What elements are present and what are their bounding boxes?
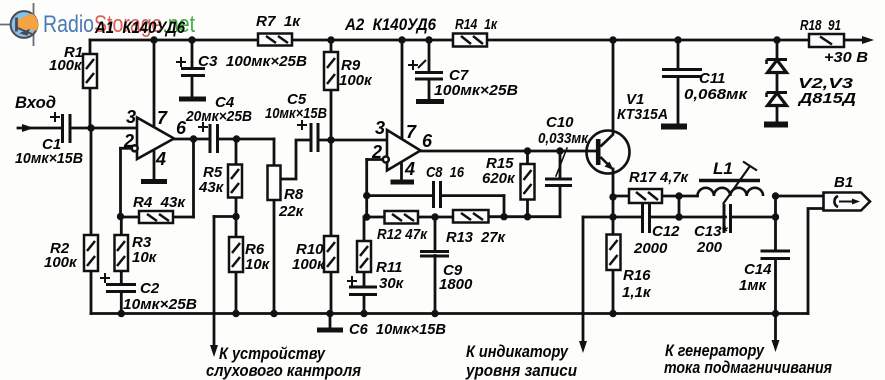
svg-text:22к: 22к [278,203,305,220]
wire R11 top [363,217,366,241]
svg-text:3: 3 [375,118,385,138]
resistor R12 [385,211,419,224]
svg-text:620к: 620к [482,170,516,187]
svg-text:1,1к: 1,1к [622,284,652,301]
resistor R13 [453,210,489,223]
capacitor C4 [210,124,218,153]
svg-text:0,068мк: 0,068мк [684,86,749,103]
wire V1 collector to rail [612,40,615,134]
resistor R3 [115,235,129,271]
wire C3 top to rail [191,40,194,69]
wire R16 bottom to rail [612,270,615,314]
wire indicator tap drop [582,217,585,345]
capacitor C3 [181,69,205,76]
ground bar bottom rail [317,328,343,333]
arrow +30V [862,36,874,44]
capacitor C7 [415,73,443,80]
resistor R4 [139,211,173,223]
logo RadioStorage.net [0,3,195,46]
node A1 output [190,135,197,142]
node L1 right [772,192,779,199]
wire C4 to R5 node [218,138,237,141]
ground bar C11 [661,124,687,130]
svg-text:1мк: 1мк [739,277,767,294]
wire C6 to rail [363,295,366,314]
svg-text:10к: 10к [245,256,271,273]
plus sign C2 [100,273,110,283]
capacitor C11 [662,70,702,77]
node rail C6 [360,310,367,317]
wire R8 bottom to rail [273,200,276,314]
svg-text:20мк×25В: 20мк×25В [185,108,252,125]
capacitor C8 [434,181,441,208]
wire R4 right lead to feedback riser [173,216,194,219]
svg-text:C12: C12 [652,223,680,240]
node R17 L1 top [675,192,682,199]
node top rail V2V3 [773,36,780,43]
wire L1 right node vertical [774,196,777,217]
node top rail A2 pin7 [398,36,405,43]
wire pin2 down to feedback lines [365,160,368,218]
wire C12 right to L1C13 node [650,216,679,219]
wire C9 bottom to rail [434,256,437,314]
svg-text:Вход: Вход [15,93,56,112]
wire upper feedback drop [503,196,506,217]
svg-text:100к: 100к [292,256,326,273]
wire zener string middle [776,73,779,94]
node emitter [609,193,616,200]
wire node down to C14 [774,217,777,251]
node pin2 A2 upper [363,192,370,199]
svg-text:100к: 100к [49,57,83,74]
svg-text:R14 1к: R14 1к [455,16,498,33]
capacitor C2 [106,285,136,292]
capacitor C5 [311,123,318,152]
wire R11 bottom to C6 [363,272,366,287]
wire B1 return [808,209,824,314]
resistor R14 [453,34,487,47]
wire top rail left segment [90,39,258,42]
inductor L1 [698,162,764,205]
wire A2 pin4 to ground [400,162,403,183]
wire lower feedback R11 to R12 [364,216,385,219]
ground A2 pin4 [391,180,415,185]
wire monitor tap down arrow line [213,217,216,351]
capacitor C6 [349,287,377,295]
svg-text:43к: 43к [198,179,225,196]
wire node down to R10 [330,140,333,236]
node top rail V1 collector [609,36,616,43]
wire A1 pin4 to ground [153,147,156,182]
resistor R11 [357,241,371,272]
svg-text:C2: C2 [140,280,160,297]
capacitor C10 [545,179,572,186]
wire R12 to R13 [418,216,453,219]
wire ground stub below rail [329,314,332,329]
wire C5 left jog [281,140,312,179]
wire A2 output line to transistor base [421,150,597,153]
wire R9 top to rail [330,40,333,52]
wire C14 bottom through rail to bias arrow [774,259,777,345]
capacitor C13 [724,204,731,233]
plus sign C7 [408,60,426,70]
resistor R6 [229,237,243,272]
svg-text:6: 6 [176,118,187,138]
wire down to R8 [273,139,276,166]
svg-text:К индикатору: К индикатору [466,342,569,361]
resistor R1 [83,54,97,88]
wire rail to R1 [89,40,92,54]
svg-text:2: 2 [123,131,134,151]
ground bar V2V3 [764,122,788,128]
wire zener string bottom to ground [776,106,779,125]
wire C13 segment left [679,216,726,219]
svg-text:3: 3 [126,107,136,127]
wire node to monitor tap [214,215,236,218]
svg-text:6: 6 [422,131,433,151]
svg-text:слухового кантроля: слухового кантроля [206,361,361,380]
node C4 R5 [233,135,240,142]
arrow to level indicator [579,341,587,353]
wire C3 bottom to ground [191,76,194,99]
wire top rail middle segment [292,39,453,42]
capacitor C14 [761,251,791,259]
capacitor C12 [643,204,650,233]
node top rail C3 [188,36,195,43]
wire C10 top [559,151,562,179]
wire emitter node down through C12 line to R16 [612,197,615,235]
wire R3 to C2 [120,271,123,285]
wire C1 to opamp pin3 [71,127,137,130]
wire C13 segment right [732,216,776,219]
wire A2 pin2 left [367,158,383,161]
plus sign C5 [297,120,307,130]
wire R15 bottom [526,200,529,217]
svg-text:тока подмагничивания: тока подмагничивания [664,358,832,377]
wire node vertical left of L1 [678,196,681,217]
wire C10 label leader [556,148,567,176]
wire C11 bottom to ground [677,77,680,127]
resistor R15 [521,164,535,200]
node rail R16 [609,310,616,317]
svg-text:30к: 30к [379,275,405,292]
node top rail C7 [425,36,432,43]
node pin2 A2 lower [363,213,370,220]
svg-text:+30 В: +30 В [824,49,868,66]
svg-text:R17 4,7к: R17 4,7к [629,169,689,186]
wire input lead [18,127,61,130]
resistor R16 [607,235,621,271]
transistor V1 [587,131,630,174]
wire C7 top to rail [428,40,431,72]
wire C9 top [434,217,437,252]
wire input node down to R2 [90,128,93,235]
svg-text:200: 200 [696,239,723,256]
plus sign C4 [198,122,208,132]
wire A1 pin7 to rail [153,40,156,127]
wire feedback riser to A1 output [192,139,195,217]
node C5 R9 R10 [327,136,334,143]
wire R9 bottom to node [330,90,333,140]
svg-text:7: 7 [406,122,417,142]
svg-text:А1 К140УД6: А1 К140УД6 [94,18,185,37]
plus sign C3 [176,57,186,67]
node emitter C12 [609,213,616,220]
node rail C9 [431,310,438,317]
svg-text:100к: 100к [44,254,78,271]
resistor R9 [324,52,338,90]
wire R3 top [120,217,123,236]
resistor R17 [629,189,662,203]
wire C4 node to R8 corner [237,138,275,141]
wire A1 output to C4 [174,138,210,141]
plus sign C6 [347,276,357,286]
svg-text:10к: 10к [132,249,158,266]
svg-text:R11: R11 [376,259,402,276]
wire bottom rail [91,312,808,315]
node top rail R9 [327,36,334,43]
wire C10 bottom [559,186,562,217]
svg-text:7: 7 [157,108,168,128]
svg-text:КТ315А: КТ315А [617,106,668,123]
capacitor C9 [420,252,449,257]
node rail R10 [326,310,333,317]
wire R10 bottom to rail [330,272,333,314]
wire C7 bottom to ground [428,79,431,101]
arrow to bias generator [772,340,780,352]
node R15 top [524,147,531,154]
wire node to B1 [776,195,824,198]
resistor R10 [324,236,338,272]
svg-text:R4 43к: R4 43к [133,194,186,211]
svg-text:10мк×15В: 10мк×15В [265,105,327,122]
svg-text:В1: В1 [834,174,853,191]
input arrow [22,124,34,132]
ground bar C7 [416,99,444,104]
svg-text:С14: С14 [744,261,772,278]
node R5 R6 tap [232,213,239,220]
node feedback drop [500,213,507,220]
wire R5 bottom to node [235,198,238,217]
wire A2 pin7 to rail [401,40,404,139]
node rail C14 [772,310,779,317]
node input [87,124,94,131]
node rail R8 [270,310,277,317]
wire upper feedback left of C8 [367,194,434,197]
wire R6 top [235,217,238,238]
wire upper feedback right of C8 [441,194,505,197]
svg-text:0,033мк: 0,033мк [538,130,589,147]
wire C5 right to A2 pin3 [318,139,387,142]
resistor R18 [809,34,844,47]
svg-text:C3 100мк×25В: C3 100мк×25В [198,53,307,70]
capacitor C1 [63,114,71,143]
svg-text:Д815Д: Д815Д [797,90,857,107]
node rail C2 [118,310,125,317]
wire top rail right segment [487,39,809,42]
wire R4 left lead [121,216,140,219]
ground A1 pin4 [141,179,167,184]
wire V1 emitter down to node [612,169,615,197]
ground bar C3 [179,97,206,102]
svg-text:C8 16: C8 16 [426,164,465,181]
svg-text:100мк×25В: 100мк×25В [434,82,518,99]
zener diode V2 [767,60,788,73]
node C12 C13 [675,213,682,220]
wire R5 top [235,139,238,165]
recording head B1 [824,193,871,211]
wire pin2 down to R4 node [119,148,122,216]
wire R2 to bottom rail [90,271,93,314]
svg-text:С13*: С13* [694,223,729,240]
arrow to monitoring device [210,345,218,357]
wire R1 to input node [89,88,92,128]
zener diode V3 [767,93,788,106]
wire C12 line left with indicator tap [583,216,643,219]
svg-text:C10: C10 [546,114,574,131]
svg-text:L1: L1 [713,159,733,178]
svg-text:1800: 1800 [439,276,473,293]
svg-text:2: 2 [371,142,382,162]
plus sign C1 [50,112,60,122]
svg-text:100к: 100к [339,72,373,89]
wire R15 top [526,151,529,164]
node top rail C11 [674,36,681,43]
resistor R8 [268,166,281,201]
node rail R6 [232,310,239,317]
resistor R2 [84,235,98,271]
wire R17 right to L1 [662,195,698,198]
node R12 R13 C9 [431,213,438,220]
svg-text:10мк×25В: 10мк×25В [123,296,197,313]
svg-text:4: 4 [404,159,415,179]
svg-text:А2 К140УД6: А2 К140УД6 [344,15,436,34]
wire C11 top [677,40,680,69]
svg-text:R7 1к: R7 1к [256,13,301,30]
svg-text:С6 10мк×15В: С6 10мк×15В [349,321,446,338]
wire R6 bottom to rail [235,272,238,314]
svg-text:R18 91: R18 91 [800,17,841,34]
op-amp A1 [132,118,174,160]
wire emitter node to R17 [613,195,629,198]
svg-text:R16: R16 [623,267,651,284]
wire +30V output after R18 [844,39,868,42]
svg-text:R8: R8 [284,186,304,203]
node C13 C14 [772,213,779,220]
svg-text:уровня записи: уровня записи [465,361,577,380]
resistor R5 [228,165,242,198]
wire A1 pin2 left [121,147,132,150]
wire zener string top [776,40,779,60]
node R15 bottom [524,213,531,220]
op-amp A2 [383,130,421,171]
resistor R7 [258,34,292,46]
svg-text:R13 27к: R13 27к [446,229,506,246]
svg-text:2000: 2000 [633,240,668,257]
node top rail A1 pin7 [150,36,157,43]
wire C2 to bottom rail [120,292,123,314]
svg-text:R12 47к: R12 47к [377,226,428,243]
node C10 top [556,147,563,154]
node R4 pin2 [117,213,124,220]
svg-text:10мк×15В: 10мк×15В [15,150,83,167]
svg-text:C11: C11 [699,70,725,87]
svg-text:4: 4 [155,149,166,169]
wire R13 right to C10 bottom [489,215,561,218]
